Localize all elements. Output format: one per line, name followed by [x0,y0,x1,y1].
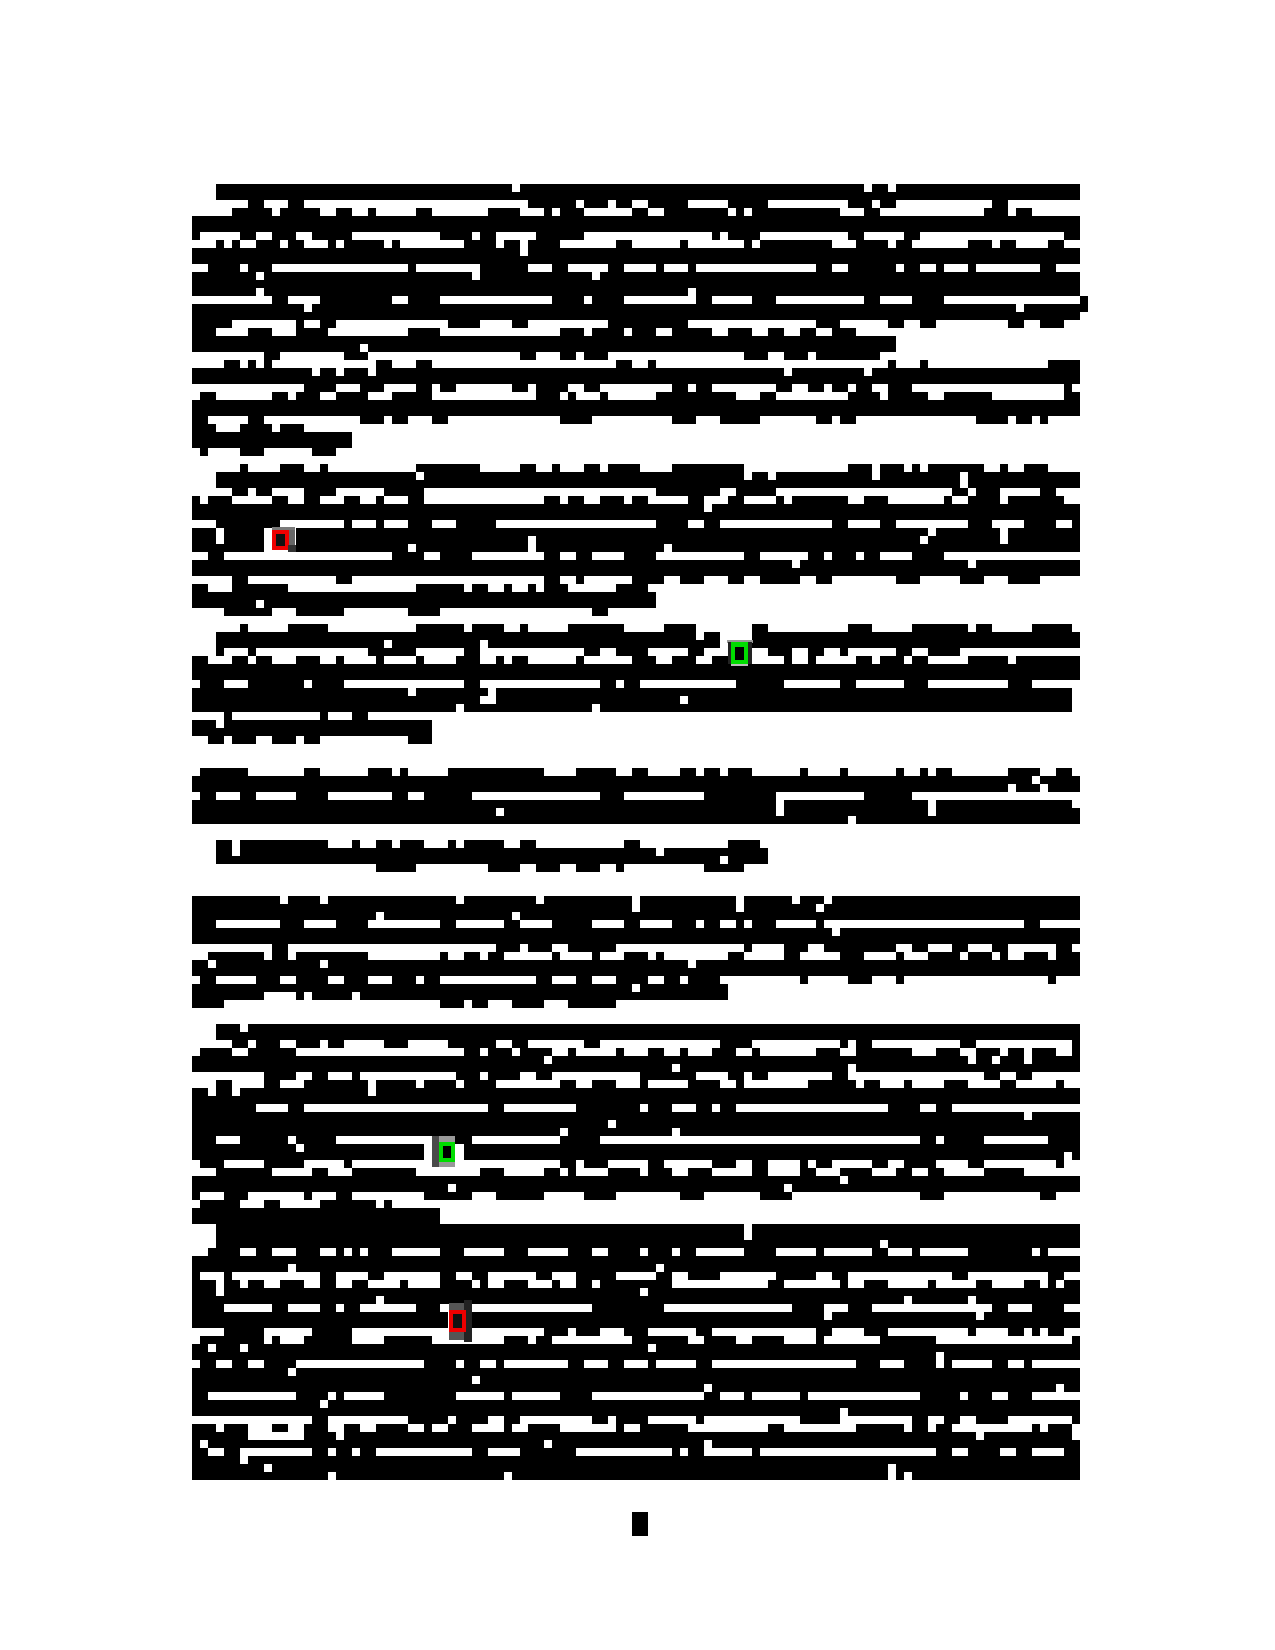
citation link box [2] (red) [272,527,296,552]
citation link box [4] (green) [727,640,753,666]
citation link box [5] (green) [432,1136,455,1167]
citation link box [3] (red) [449,1300,472,1342]
text block mosaic [192,184,1088,1536]
